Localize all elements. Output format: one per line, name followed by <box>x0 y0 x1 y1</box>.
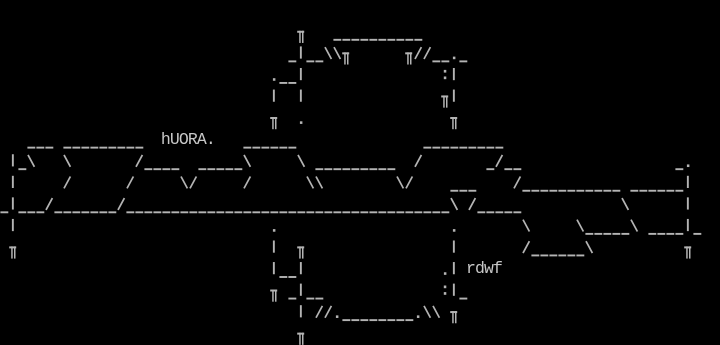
wire: underscore stroke row 7 col 40 <box>360 168 368 170</box>
wire: underscore stroke row 9 col 27 <box>243 211 251 213</box>
node: pi-corner glyph (CP437 0xB7) row 14 col 50 <box>450 311 457 323</box>
wire: underscore stroke row 8 col 74 <box>666 190 674 192</box>
wire: underscore stroke row 8 col 64 <box>576 190 584 192</box>
wire: underscore stroke row 9 col 47 <box>423 211 431 213</box>
wire: underscore stroke row 7 col 23 <box>207 168 215 170</box>
wire: vertical bar row 12 col 30 <box>273 262 275 274</box>
wire: underscore stroke row 7 col 35 <box>315 168 323 170</box>
node: period dot row 10 col 50 <box>453 229 456 232</box>
wire: vertical bar row 8 col 76 <box>687 176 689 188</box>
wire: underscore stroke row 9 col 6 <box>54 211 62 213</box>
wire: underscore stroke row 6 col 11 <box>99 147 107 149</box>
wire: underscore stroke row 8 col 61 <box>549 190 557 192</box>
wire: underscore stroke row 1 col 38 <box>342 39 350 41</box>
wire: underscore stroke row 9 col 55 <box>495 211 503 213</box>
wire: vertical bar row 8 col 1 <box>12 176 14 188</box>
wire: slash stroke row 9 col 13 <box>118 198 124 210</box>
wire: underscore stroke row 9 col 35 <box>315 211 323 213</box>
wire: slash stroke row 7 col 15 <box>136 155 142 167</box>
wire: underscore stroke row 7 col 19 <box>171 168 179 170</box>
node: period dot row 12 col 49 <box>444 272 447 275</box>
wire: underscore stroke row 8 col 71 <box>639 190 647 192</box>
wire: underscore stroke row 9 col 49 <box>441 211 449 213</box>
wire: underscore stroke row 6 col 30 <box>270 147 278 149</box>
wire: underscore stroke row 9 col 7 <box>63 211 71 213</box>
wire: underscore stroke row 8 col 59 <box>531 190 539 192</box>
wire: underscore stroke row 8 col 60 <box>540 190 548 192</box>
wire: underscore stroke row 13 col 51 <box>459 298 467 300</box>
wire: underscore stroke row 8 col 52 <box>468 190 476 192</box>
node: pi-corner glyph (CP437 0xB7) row 5 col 30 <box>270 117 277 129</box>
wire: underscore stroke row 1 col 41 <box>369 39 377 41</box>
wire: slash stroke row 14 col 35 <box>316 306 322 318</box>
node: pi-corner glyph (CP437 0xB7) row 13 col 30 <box>270 290 277 302</box>
wire: slash stroke row 8 col 14 <box>127 177 133 189</box>
wire: underscore stroke row 14 col 42 <box>378 319 386 321</box>
wire: underscore stroke row 6 col 32 <box>288 147 296 149</box>
wire: underscore stroke row 14 col 45 <box>405 319 413 321</box>
wire: underscore stroke row 10 col 66 <box>594 233 602 235</box>
wire: underscore stroke row 9 col 53 <box>477 211 485 213</box>
wire: underscore stroke row 10 col 77 <box>693 233 701 235</box>
wire: underscore stroke row 7 col 22 <box>198 168 206 170</box>
wire: vertical bar row 11 col 30 <box>273 240 275 252</box>
wire: underscore stroke row 2 col 48 <box>432 60 440 62</box>
wire: underscore stroke row 9 col 16 <box>144 211 152 213</box>
wire: vertical bar row 4 col 33 <box>300 90 302 102</box>
wire: underscore stroke row 7 col 75 <box>675 168 683 170</box>
wire: slash stroke row 9 col 52 <box>469 198 475 210</box>
wire: underscore stroke row 9 col 36 <box>324 211 332 213</box>
wire: underscore stroke row 10 col 72 <box>648 233 656 235</box>
wire: underscore stroke row 9 col 42 <box>378 211 386 213</box>
wire: vertical bar row 3 col 50 <box>453 68 455 80</box>
node: pi-corner glyph (CP437 0xB7) row 11 col 76 <box>684 246 691 258</box>
wire: slash stroke row 8 col 21 <box>190 177 196 189</box>
wire: underscore stroke row 9 col 37 <box>333 211 341 213</box>
wire: underscore stroke row 8 col 70 <box>630 190 638 192</box>
wire: underscore stroke row 10 col 74 <box>666 233 674 235</box>
wire: underscore stroke row 13 col 34 <box>306 298 314 300</box>
wire: underscore stroke row 11 col 61 <box>549 254 557 256</box>
wire: underscore stroke row 6 col 7 <box>63 147 71 149</box>
wire: underscore stroke row 13 col 32 <box>288 298 296 300</box>
wire: underscore stroke row 6 col 54 <box>486 147 494 149</box>
wire: underscore stroke row 8 col 67 <box>603 190 611 192</box>
wire: underscore stroke row 7 col 42 <box>378 168 386 170</box>
wire: underscore stroke row 7 col 2 <box>18 168 26 170</box>
wire: slash stroke row 8 col 7 <box>64 177 70 189</box>
wire: underscore stroke row 7 col 54 <box>486 168 494 170</box>
node: pi-corner glyph (CP437 0xB7) row 4 col 49 <box>441 95 448 107</box>
wire: vertical bar row 7 col 1 <box>12 154 14 166</box>
wire: underscore stroke row 6 col 51 <box>459 147 467 149</box>
wire: backslash stroke row 7 col 33 <box>298 155 304 167</box>
wire: underscore stroke row 8 col 50 <box>450 190 458 192</box>
wire: underscore stroke row 8 col 58 <box>522 190 530 192</box>
wire: underscore stroke row 9 col 18 <box>162 211 170 213</box>
wire: underscore stroke row 9 col 11 <box>99 211 107 213</box>
wire: underscore stroke row 10 col 67 <box>603 233 611 235</box>
wire: underscore stroke row 10 col 75 <box>675 233 683 235</box>
wire: underscore stroke row 9 col 46 <box>414 211 422 213</box>
wire: vertical bar row 10 col 1 <box>12 219 14 231</box>
wire: backslash stroke row 2 col 36 <box>325 47 331 59</box>
wire: underscore stroke row 11 col 63 <box>567 254 575 256</box>
node: pi-corner glyph (CP437 0xB7) row 5 col 50 <box>450 117 457 129</box>
wire: underscore stroke row 9 col 25 <box>225 211 233 213</box>
wire: vertical bar row 10 col 76 <box>687 219 689 231</box>
wire: slash stroke row 14 col 36 <box>325 306 331 318</box>
wire: underscore stroke row 9 col 14 <box>126 211 134 213</box>
wire: underscore stroke row 9 col 20 <box>180 211 188 213</box>
wire: backslash stroke row 9 col 50 <box>451 198 457 210</box>
wire: underscore stroke row 6 col 13 <box>117 147 125 149</box>
wire: underscore stroke row 8 col 72 <box>648 190 656 192</box>
wire: underscore stroke row 9 col 28 <box>252 211 260 213</box>
wire: underscore stroke row 9 col 19 <box>171 211 179 213</box>
node: pi-corner glyph (CP437 0xB7) row 15 col 33 <box>297 333 304 345</box>
wire: slash stroke row 8 col 45 <box>406 177 412 189</box>
wire: underscore stroke row 7 col 39 <box>351 168 359 170</box>
wire: underscore stroke row 9 col 39 <box>351 211 359 213</box>
node: period dot row 3 col 30 <box>273 78 276 81</box>
wire: underscore stroke row 9 col 15 <box>135 211 143 213</box>
wire: underscore stroke row 6 col 14 <box>126 147 134 149</box>
wire: vertical bar row 13 col 50 <box>453 284 455 296</box>
wire: underscore stroke row 14 col 39 <box>351 319 359 321</box>
wire: underscore stroke row 9 col 44 <box>396 211 404 213</box>
wire: underscore stroke row 14 col 43 <box>387 319 395 321</box>
wire: underscore stroke row 9 col 2 <box>18 211 26 213</box>
wire: underscore stroke row 7 col 37 <box>333 168 341 170</box>
wire: underscore stroke row 14 col 40 <box>360 319 368 321</box>
wire: underscore stroke row 9 col 26 <box>234 211 242 213</box>
wire: underscore stroke row 6 col 47 <box>423 147 431 149</box>
wire: underscore stroke row 8 col 65 <box>585 190 593 192</box>
wire: backslash stroke row 7 col 3 <box>28 155 34 167</box>
wire: underscore stroke row 6 col 27 <box>243 147 251 149</box>
wire: vertical bar row 3 col 33 <box>300 68 302 80</box>
node: period dot row 5 col 33 <box>300 121 303 124</box>
wire: underscore stroke row 8 col 63 <box>567 190 575 192</box>
wire: vertical bar row 12 col 33 <box>300 262 302 274</box>
wire: underscore stroke row 7 col 43 <box>387 168 395 170</box>
node: period dot row 7 col 76 <box>687 164 690 167</box>
wire: underscore stroke row 9 col 32 <box>288 211 296 213</box>
wire: underscore stroke row 8 col 51 <box>459 190 467 192</box>
wire: underscore stroke row 11 col 60 <box>540 254 548 256</box>
wire: underscore stroke row 7 col 26 <box>234 168 242 170</box>
wire: underscore stroke row 2 col 32 <box>288 60 296 62</box>
wire: slash stroke row 8 col 27 <box>244 177 250 189</box>
wire: underscore stroke row 6 col 48 <box>432 147 440 149</box>
node: period dot row 14 col 46 <box>417 315 420 318</box>
node: period dot row 14 col 37 <box>336 315 339 318</box>
wire: underscore stroke row 12 col 32 <box>288 276 296 278</box>
wire: underscore stroke row 7 col 16 <box>144 168 152 170</box>
wire: underscore stroke row 9 col 38 <box>342 211 350 213</box>
wire: underscore stroke row 7 col 18 <box>162 168 170 170</box>
wire: underscore stroke row 2 col 51 <box>459 60 467 62</box>
wire: underscore stroke row 6 col 10 <box>90 147 98 149</box>
wire: underscore stroke row 9 col 29 <box>261 211 269 213</box>
wire: backslash stroke row 8 col 20 <box>181 177 187 189</box>
wire: underscore stroke row 9 col 33 <box>297 211 305 213</box>
wire: underscore stroke row 7 col 24 <box>216 168 224 170</box>
wire: vertical bar row 2 col 33 <box>300 46 302 58</box>
wire: underscore stroke row 6 col 31 <box>279 147 287 149</box>
wire: backslash stroke row 10 col 58 <box>523 220 529 232</box>
wire: slash stroke row 2 col 47 <box>424 47 430 59</box>
wire: underscore stroke row 9 col 54 <box>486 211 494 213</box>
wire: underscore stroke row 6 col 8 <box>72 147 80 149</box>
wire: underscore stroke row 9 col 0 <box>0 211 8 213</box>
wire: underscore stroke row 8 col 68 <box>612 190 620 192</box>
wire: backslash stroke row 10 col 70 <box>631 220 637 232</box>
wire: backslash stroke row 11 col 65 <box>586 241 592 253</box>
wire: underscore stroke row 9 col 12 <box>108 211 116 213</box>
wire: underscore stroke row 7 col 25 <box>225 168 233 170</box>
wire: underscore stroke row 9 col 23 <box>207 211 215 213</box>
wire: underscore stroke row 10 col 65 <box>585 233 593 235</box>
wire: slash stroke row 8 col 57 <box>514 177 520 189</box>
wire: backslash stroke row 10 col 64 <box>577 220 583 232</box>
wire: underscore stroke row 7 col 17 <box>153 168 161 170</box>
wire: underscore stroke row 1 col 44 <box>396 39 404 41</box>
wire: slash stroke row 9 col 5 <box>46 198 52 210</box>
wire: underscore stroke row 14 col 44 <box>396 319 404 321</box>
wire: underscore stroke row 8 col 66 <box>594 190 602 192</box>
wire: underscore stroke row 9 col 9 <box>81 211 89 213</box>
wire: underscore stroke row 9 col 56 <box>504 211 512 213</box>
wire: underscore stroke row 7 col 57 <box>513 168 521 170</box>
wire: underscore stroke row 6 col 3 <box>27 147 35 149</box>
wire: underscore stroke row 9 col 45 <box>405 211 413 213</box>
wire: underscore stroke row 9 col 3 <box>27 211 35 213</box>
wire: underscore stroke row 8 col 75 <box>675 190 683 192</box>
wire: slash stroke row 7 col 55 <box>496 155 502 167</box>
wire: underscore stroke row 1 col 37 <box>333 39 341 41</box>
wire: underscore stroke row 7 col 41 <box>369 168 377 170</box>
wire: underscore stroke row 2 col 35 <box>315 60 323 62</box>
wire: underscore stroke row 9 col 4 <box>36 211 44 213</box>
wire: underscore stroke row 14 col 38 <box>342 319 350 321</box>
node: pi-corner glyph (CP437 0xB7) row 11 col 1 <box>9 246 16 258</box>
wire: underscore stroke row 9 col 41 <box>369 211 377 213</box>
wire: underscore stroke row 9 col 22 <box>198 211 206 213</box>
wire: underscore stroke row 10 col 68 <box>612 233 620 235</box>
node: pi-corner glyph (CP437 0xB7) row 11 col 33 <box>297 246 304 258</box>
wire: underscore stroke row 9 col 10 <box>90 211 98 213</box>
label: artist signature text "rdwf" <box>466 259 502 278</box>
wire: underscore stroke row 11 col 59 <box>531 254 539 256</box>
node: period dot row 2 col 50 <box>453 57 456 60</box>
label: artwork title text "hUORA." <box>161 130 215 149</box>
wire: underscore stroke row 7 col 38 <box>342 168 350 170</box>
wire: underscore stroke row 9 col 30 <box>270 211 278 213</box>
wire: underscore stroke row 8 col 62 <box>558 190 566 192</box>
wire: backslash stroke row 14 col 47 <box>424 306 430 318</box>
wire: underscore stroke row 7 col 56 <box>504 168 512 170</box>
wire: backslash stroke row 8 col 44 <box>397 177 403 189</box>
wire: underscore stroke row 7 col 36 <box>324 168 332 170</box>
wire: underscore stroke row 6 col 50 <box>450 147 458 149</box>
wire: underscore stroke row 6 col 12 <box>108 147 116 149</box>
wire: backslash stroke row 9 col 69 <box>622 198 628 210</box>
wire: underscore stroke row 6 col 53 <box>477 147 485 149</box>
wire: underscore stroke row 9 col 17 <box>153 211 161 213</box>
wire: underscore stroke row 8 col 73 <box>657 190 665 192</box>
wire: underscore stroke row 1 col 43 <box>387 39 395 41</box>
wire: vertical bar row 4 col 50 <box>453 90 455 102</box>
wire: slash stroke row 2 col 46 <box>415 47 421 59</box>
wire: underscore stroke row 6 col 55 <box>495 147 503 149</box>
wire: vertical bar row 12 col 50 <box>453 262 455 274</box>
wire: underscore stroke row 6 col 29 <box>261 147 269 149</box>
node: pi-corner glyph (CP437 0xB7) row 2 col 38 <box>342 52 349 64</box>
wire: underscore stroke row 2 col 34 <box>306 60 314 62</box>
wire: underscore stroke row 9 col 57 <box>513 211 521 213</box>
wire: underscore stroke row 9 col 43 <box>387 211 395 213</box>
wire: underscore stroke row 3 col 32 <box>288 82 296 84</box>
wire: backslash stroke row 14 col 48 <box>433 306 439 318</box>
wire: vertical bar row 14 col 33 <box>300 305 302 317</box>
wire: underscore stroke row 9 col 40 <box>360 211 368 213</box>
wire: underscore stroke row 6 col 52 <box>468 147 476 149</box>
wire: vertical bar row 11 col 50 <box>453 240 455 252</box>
wire: underscore stroke row 1 col 42 <box>378 39 386 41</box>
wire: underscore stroke row 1 col 40 <box>360 39 368 41</box>
wire: underscore stroke row 1 col 45 <box>405 39 413 41</box>
wire: vertical bar row 13 col 33 <box>300 284 302 296</box>
wire: underscore stroke row 9 col 34 <box>306 211 314 213</box>
wire: underscore stroke row 2 col 49 <box>441 60 449 62</box>
wire: underscore stroke row 6 col 49 <box>441 147 449 149</box>
wire: backslash stroke row 8 col 35 <box>316 177 322 189</box>
wire: underscore stroke row 13 col 35 <box>315 298 323 300</box>
wire: vertical bar row 9 col 1 <box>12 197 14 209</box>
wire: backslash stroke row 7 col 7 <box>64 155 70 167</box>
wire: underscore stroke row 1 col 46 <box>414 39 422 41</box>
wire: underscore stroke row 6 col 15 <box>135 147 143 149</box>
node: pi-corner glyph (CP437 0xB7) row 1 col 33 <box>297 31 304 43</box>
wire: underscore stroke row 14 col 41 <box>369 319 377 321</box>
wire: underscore stroke row 6 col 5 <box>45 147 53 149</box>
wire: vertical bar row 9 col 76 <box>687 197 689 209</box>
node: pi-corner glyph (CP437 0xB7) row 2 col 45 <box>405 52 412 64</box>
wire: underscore stroke row 9 col 21 <box>189 211 197 213</box>
node: period dot row 10 col 30 <box>273 229 276 232</box>
wire: underscore stroke row 11 col 64 <box>576 254 584 256</box>
wire: underscore stroke row 9 col 24 <box>216 211 224 213</box>
wire: underscore stroke row 10 col 69 <box>621 233 629 235</box>
wire: backslash stroke row 7 col 27 <box>244 155 250 167</box>
wire: backslash stroke row 8 col 34 <box>307 177 313 189</box>
wire: slash stroke row 11 col 58 <box>523 241 529 253</box>
wire: slash stroke row 7 col 46 <box>415 155 421 167</box>
wire: underscore stroke row 10 col 73 <box>657 233 665 235</box>
wire: underscore stroke row 9 col 31 <box>279 211 287 213</box>
wire: underscore stroke row 6 col 4 <box>36 147 44 149</box>
wire: underscore stroke row 6 col 28 <box>252 147 260 149</box>
node: colon row 13 col 49 <box>444 286 447 295</box>
node: colon row 3 col 49 <box>444 70 447 79</box>
wire: underscore stroke row 12 col 31 <box>279 276 287 278</box>
wire: backslash stroke row 2 col 37 <box>334 47 340 59</box>
wire: underscore stroke row 1 col 39 <box>351 39 359 41</box>
wire: underscore stroke row 9 col 48 <box>432 211 440 213</box>
wire: underscore stroke row 3 col 31 <box>279 82 287 84</box>
wire: underscore stroke row 11 col 62 <box>558 254 566 256</box>
wire: underscore stroke row 6 col 9 <box>81 147 89 149</box>
wire: vertical bar row 4 col 30 <box>273 90 275 102</box>
wire: underscore stroke row 9 col 8 <box>72 211 80 213</box>
